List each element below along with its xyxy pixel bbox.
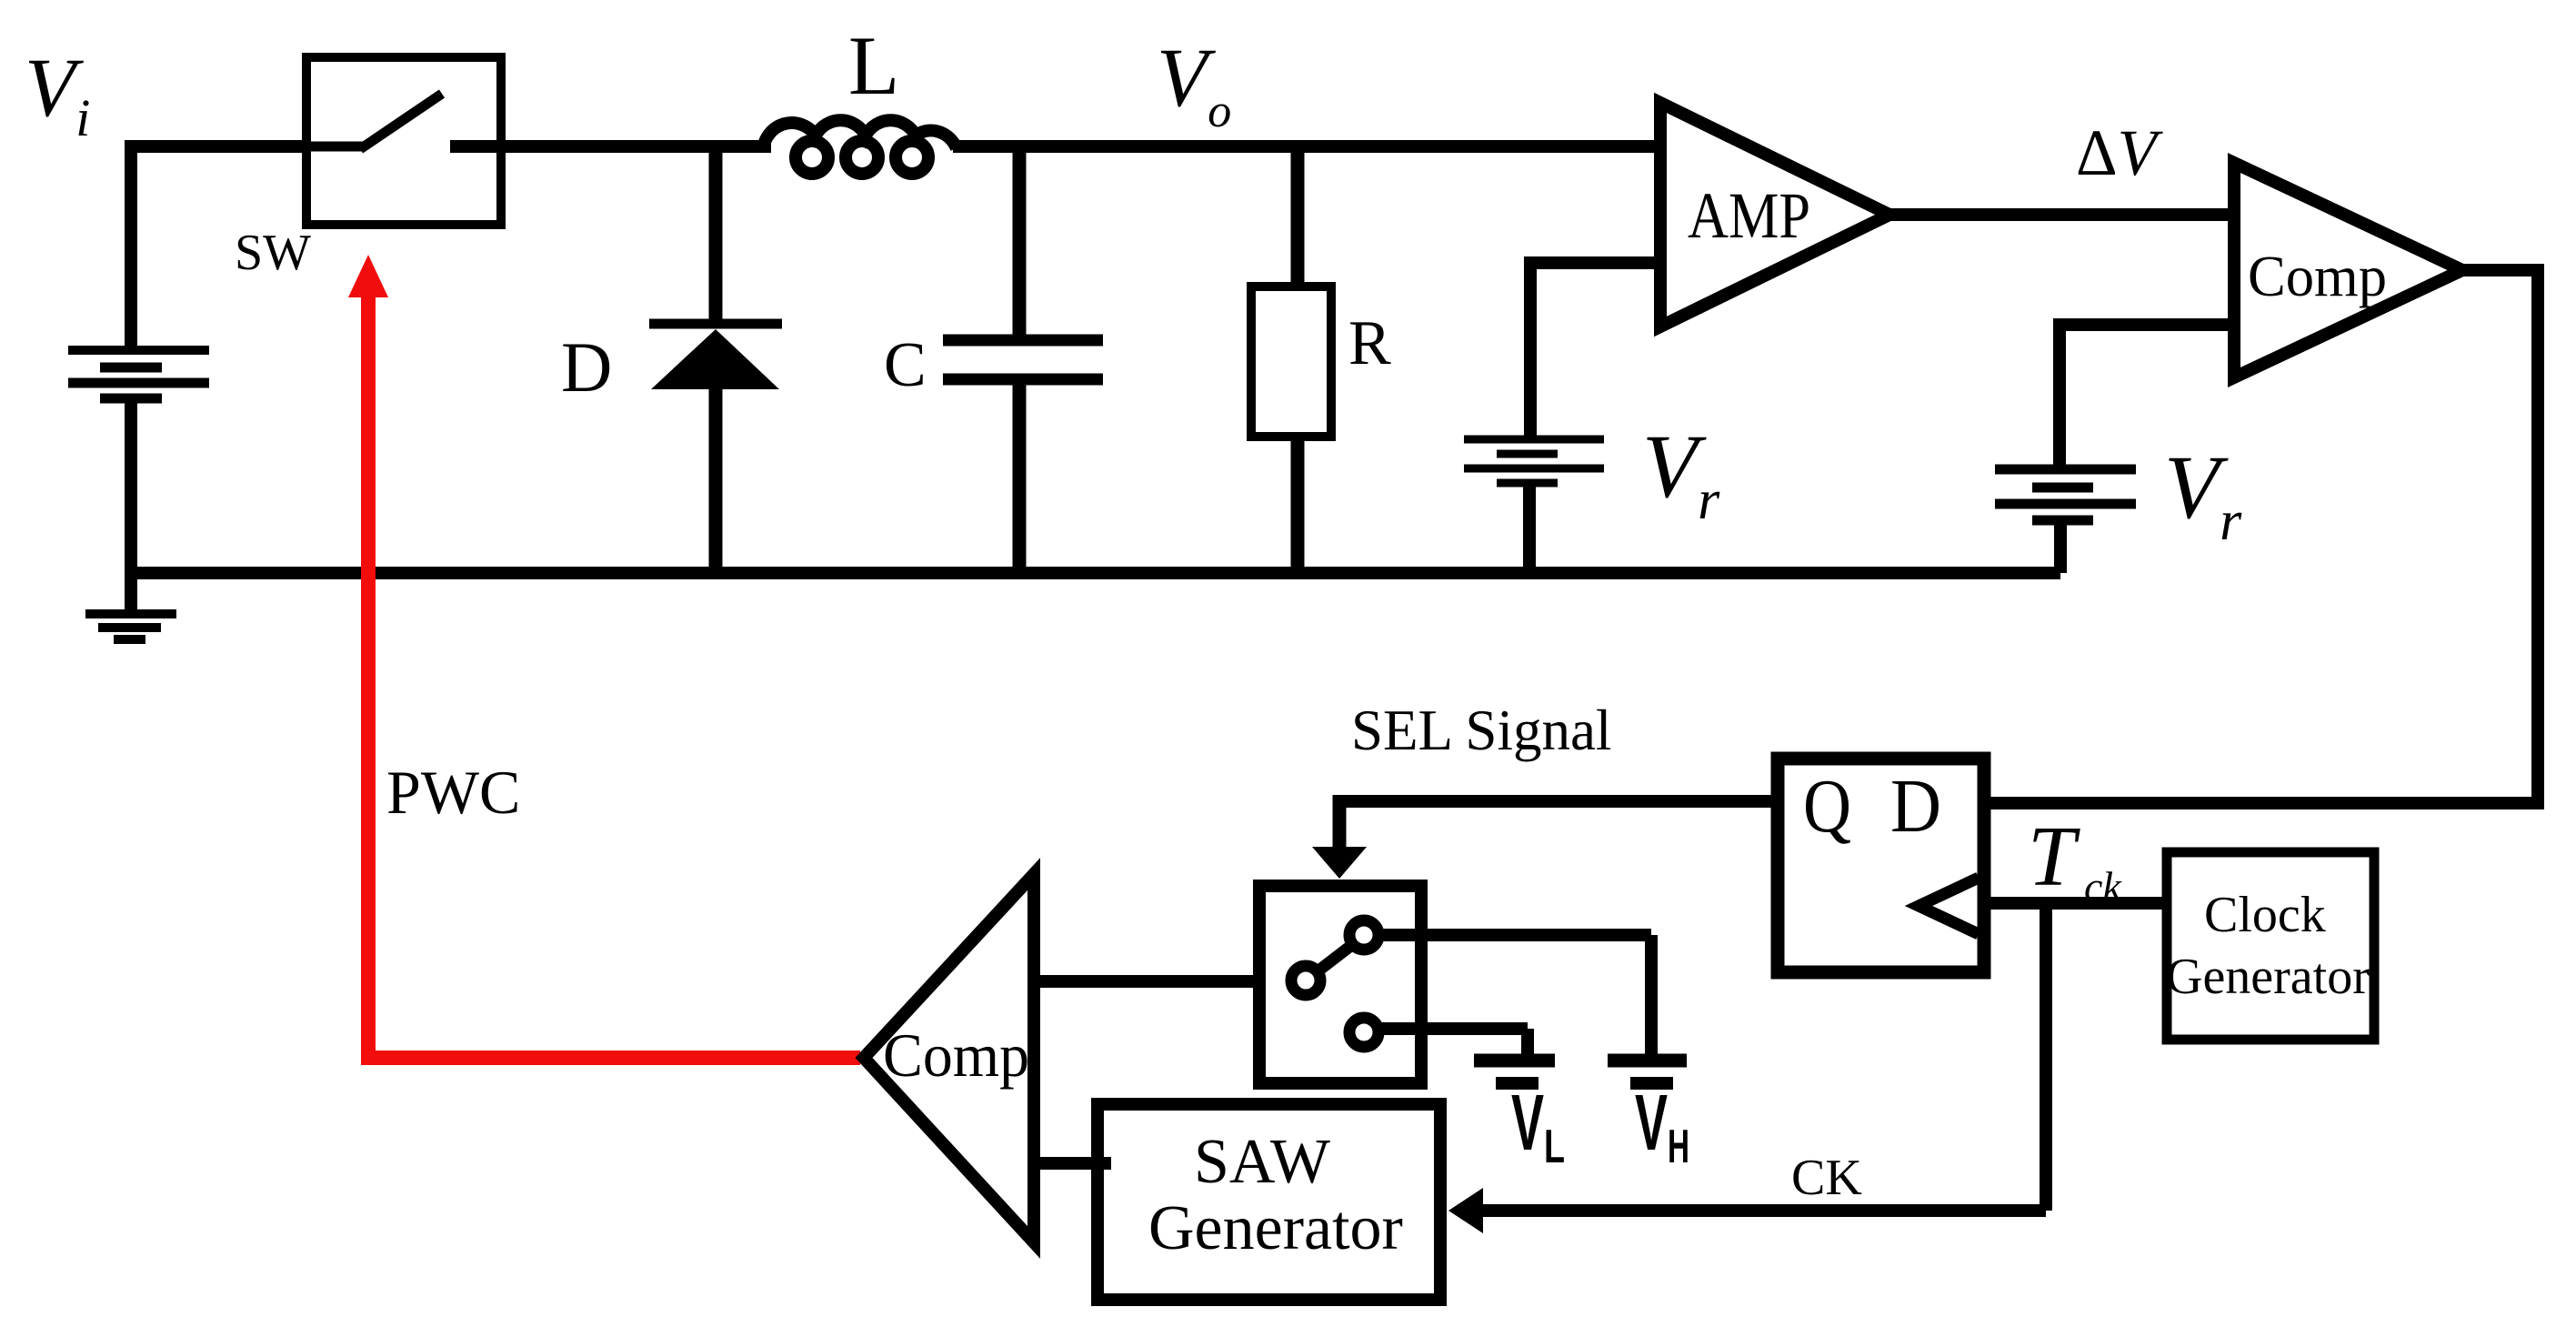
- SAW generator box: [1098, 1104, 1440, 1300]
- wire: top main bus from Vi to SW: [125, 140, 311, 153]
- svg-text:Comp: Comp: [2248, 244, 2387, 308]
- svg-text:L: L: [848, 19, 899, 112]
- diode D triangle: [651, 329, 779, 389]
- resistor R box: [1251, 287, 1331, 437]
- wire: inductor end to AMP input (Vo rail): [953, 140, 1660, 153]
- svg-text:AMP: AMP: [1688, 179, 1810, 252]
- diode D cathode bar: [649, 319, 782, 329]
- svg-text:R: R: [1348, 308, 1391, 378]
- flip-flop clock triangle: [1919, 878, 1979, 934]
- comparator Comp (bottom) triangle: [864, 874, 1034, 1242]
- wire: CK line: [1479, 1204, 2046, 1217]
- svg-text:SAW: SAW: [1194, 1127, 1330, 1197]
- wire: Tck clock line: [1981, 897, 2171, 910]
- svg-text:SEL Signal: SEL Signal: [1351, 699, 1611, 762]
- svg-text:VL: VL: [1511, 1079, 1565, 1173]
- clock generator box: [2167, 852, 2374, 1040]
- wire: bottom ground bus: [125, 567, 2060, 579]
- capacitor C plates: [943, 335, 1103, 347]
- wire: SEL vertical with arrow: [1333, 795, 1347, 850]
- svg-text:VH: VH: [1635, 1079, 1689, 1173]
- selector contact upper: [1349, 920, 1378, 950]
- inductor L coil: [763, 120, 957, 174]
- svg-text:Q: Q: [1803, 764, 1851, 849]
- svg-text:Generator: Generator: [2166, 949, 2370, 1005]
- wire: SW right to inductor start: [496, 140, 771, 153]
- svg-text:Vi: Vi: [25, 41, 90, 147]
- resistor R wires: [1291, 140, 1305, 284]
- svg-text:Vr: Vr: [1642, 416, 1720, 531]
- D flip-flop box: [1778, 759, 1984, 972]
- wire: Vr battery to ground bus: [1523, 483, 1536, 573]
- battery Vr (right): [1995, 469, 2136, 520]
- svg-text:T: T: [2028, 809, 2080, 904]
- switch SW box: [306, 57, 501, 225]
- svg-text:Comp: Comp: [883, 1020, 1029, 1090]
- diode D vertical wires: [709, 140, 723, 327]
- wire: feedback vertical down to D input: [2531, 270, 2544, 803]
- battery VL: [1474, 1054, 1555, 1068]
- wire: comp2 output to selector: [1037, 975, 1263, 988]
- battery VH: [1608, 1054, 1687, 1068]
- svg-text:Generator: Generator: [1148, 1193, 1403, 1263]
- comparator Comp (top) triangle: [2234, 163, 2462, 377]
- svg-text:PWC: PWC: [386, 758, 520, 827]
- red wire PWC: [368, 284, 860, 1058]
- wire: battery bottom to ground: [125, 397, 137, 612]
- wire: AMP output to Comp (dV): [1889, 208, 2240, 221]
- svg-text:D: D: [561, 327, 612, 407]
- wire: left vertical from top rail to battery: [125, 140, 137, 351]
- wire: Q output (SEL): [1333, 795, 1780, 808]
- wire: SAW generator to comp2 lower input: [1037, 1157, 1111, 1170]
- svg-text:SW: SW: [235, 225, 311, 281]
- svg-text:ΔV: ΔV: [2076, 116, 2163, 189]
- wire: lower contact to VL: [1378, 1022, 1528, 1035]
- selector contact middle: [1291, 966, 1320, 995]
- wire: Comp output to feedback vertical: [2462, 264, 2544, 276]
- svg-text:CK: CK: [1791, 1150, 1862, 1206]
- ground: [85, 614, 176, 639]
- battery Vi: [68, 350, 209, 398]
- selector contact lower: [1349, 1018, 1378, 1047]
- op-amp AMP triangle: [1660, 103, 1889, 327]
- svg-text:Clock: Clock: [2204, 887, 2326, 943]
- capacitor C wires: [1013, 140, 1027, 337]
- wire: AMP inverting input: [1524, 256, 1660, 269]
- svg-text:C: C: [884, 330, 927, 400]
- selector lever: [1318, 944, 1353, 971]
- wire: Comp lower input: [2053, 318, 2234, 331]
- svg-text:Vr: Vr: [2164, 437, 2242, 552]
- wire: upper contact to VH: [1378, 929, 1651, 941]
- battery Vr (left): [1464, 439, 1604, 483]
- svg-text:D: D: [1890, 764, 1941, 849]
- switch SW lever: [311, 142, 364, 152]
- wire: Vr right battery to ground bus: [2054, 520, 2067, 573]
- selector switch box: [1259, 886, 1421, 1083]
- red arrowhead PWC: [348, 255, 388, 297]
- svg-text:Vo: Vo: [1157, 31, 1231, 137]
- wire: D input into flip-flop: [1990, 797, 2544, 809]
